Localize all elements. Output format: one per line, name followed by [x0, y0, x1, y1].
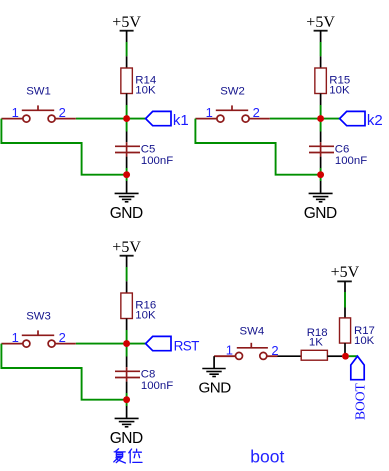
svg-text:boot: boot: [250, 447, 284, 467]
svg-text:10K: 10K: [354, 335, 375, 347]
svg-text:RST: RST: [174, 338, 200, 353]
svg-text:C8: C8: [141, 368, 156, 380]
svg-text:GND: GND: [198, 379, 231, 396]
svg-text:SW3: SW3: [26, 310, 51, 322]
svg-text:R15: R15: [329, 75, 350, 87]
svg-text:SW2: SW2: [220, 85, 245, 97]
svg-text:k2: k2: [367, 112, 383, 129]
svg-text:R14: R14: [135, 75, 156, 87]
svg-text:SW1: SW1: [26, 85, 51, 97]
svg-text:1K: 1K: [309, 337, 323, 349]
svg-text:C5: C5: [141, 143, 156, 155]
svg-text:C6: C6: [335, 143, 350, 155]
svg-text:BOOT: BOOT: [353, 382, 368, 420]
svg-text:+5V: +5V: [331, 264, 360, 281]
svg-text:k1: k1: [173, 112, 189, 129]
svg-text:R16: R16: [135, 300, 156, 312]
svg-text:SW4: SW4: [240, 325, 265, 337]
